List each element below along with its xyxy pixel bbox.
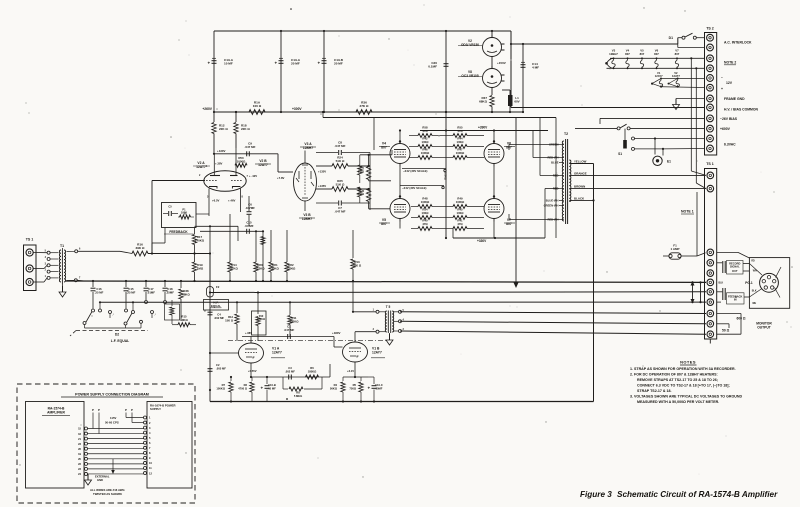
- svg-text:240KΩ: 240KΩ: [195, 239, 205, 243]
- transformer T2 primary winding: [562, 141, 564, 221]
- label 115V: [105, 416, 144, 425]
- svg-text:TWISTED AS SHOWN: TWISTED AS SHOWN: [93, 492, 122, 496]
- wire grid row upper: [195, 226, 239, 241]
- wire signal bus F: [400, 331, 706, 334]
- resistor R55: [446, 126, 484, 138]
- wire V1A plate row: [242, 331, 334, 343]
- label LF EQUAL: [111, 339, 129, 343]
- transistor V6 heater: [654, 49, 659, 70]
- label -24V lower: [400, 186, 444, 191]
- svg-text:T 5: T 5: [386, 305, 391, 309]
- wire V6 plate to green: [509, 145, 559, 151]
- svg-text:AMPLIFIER: AMPLIFIER: [47, 410, 65, 414]
- svg-text:11: 11: [149, 466, 152, 470]
- svg-text:47Ω: 47Ω: [457, 129, 463, 133]
- wire V2 cathode drops: [196, 189, 240, 217]
- wire feedback vertical with arrow: [514, 117, 519, 288]
- svg-text:5 MEG: 5 MEG: [294, 394, 302, 398]
- svg-text:FRAME GND: FRAME GND: [724, 97, 745, 101]
- svg-text:807: 807: [506, 222, 512, 226]
- svg-text:1 AMP: 1 AMP: [670, 247, 679, 251]
- wire 6.3vac vertical B: [695, 67, 706, 188]
- label V2 cathode voltages: [212, 199, 236, 203]
- fuse F1: [663, 192, 706, 259]
- resistor R41: [446, 219, 484, 231]
- svg-text:−: −: [721, 76, 723, 80]
- switch S1: [575, 124, 705, 156]
- svg-text:2. FOR DC OPERATION OF 807 &: 2. FOR DC OPERATION OF 807 & 12BH7 HEATE…: [630, 372, 718, 376]
- label 12V: [721, 76, 733, 91]
- svg-text:100 Ω: 100 Ω: [253, 104, 262, 108]
- tube V3 internals: [296, 165, 314, 198]
- wire V3A plate row: [316, 165, 332, 167]
- wire filter rail C13-B: [280, 30, 282, 113]
- svg-text:BLK: BLK: [752, 291, 757, 293]
- svg-text:390KΩ: 390KΩ: [290, 319, 300, 323]
- resistor R45: [446, 208, 484, 220]
- tube V6 807: [484, 140, 515, 166]
- svg-text:×: ×: [204, 309, 206, 313]
- svg-text:+ .42V: + .42V: [249, 174, 257, 178]
- node T2 BLACK: [569, 196, 594, 201]
- node T2 RED: [553, 187, 564, 191]
- label note line: [637, 389, 672, 393]
- svg-text:+: +: [208, 61, 211, 66]
- svg-text:P: P: [131, 408, 133, 412]
- svg-text:3: 3: [45, 262, 47, 265]
- label POWER SUPPLY CONNECTION DIAGRAM: [61, 393, 163, 398]
- resistor R2: [238, 377, 254, 402]
- svg-text:1000Ω: 1000Ω: [456, 200, 465, 204]
- potentiometer P1: [178, 208, 194, 220]
- box RA-1674-B power supply: [147, 402, 192, 489]
- svg-text:807: 807: [654, 52, 659, 56]
- terminal strip TS1 right: [705, 162, 717, 344]
- svg-text:56KΩ: 56KΩ: [330, 386, 338, 390]
- svg-text:RD: RD: [751, 261, 755, 263]
- svg-text:7: 7: [149, 446, 151, 450]
- svg-text:2: 2: [149, 421, 151, 425]
- svg-text:Schematic Circuit of RA-1574-B: Schematic Circuit of RA-1574-B Amplifier: [617, 490, 778, 499]
- wire V1B plate up: [355, 332, 376, 342]
- svg-text:27K Ω: 27K Ω: [359, 104, 369, 108]
- svg-text:100KΩ: 100KΩ: [257, 318, 265, 321]
- wire P pair A: [92, 408, 100, 434]
- svg-text:12BH7: 12BH7: [303, 146, 313, 150]
- tube V2 12AT7 envelope: [204, 171, 246, 192]
- svg-text:D1: D1: [669, 36, 673, 40]
- svg-text:47Ω: 47Ω: [422, 129, 428, 133]
- resistor R8: [283, 377, 322, 398]
- wire feedback drop: [152, 228, 165, 254]
- node T2 BROWN: [569, 185, 705, 189]
- resistor R48: [411, 197, 446, 209]
- svg-text:NOTE 2: NOTE 2: [724, 61, 736, 65]
- svg-text:PG-1: PG-1: [745, 281, 753, 285]
- capacitor C4: [204, 309, 224, 320]
- tube V5 807: [379, 195, 410, 226]
- wire column 210: [209, 225, 211, 281]
- svg-text:Figure 3: Figure 3: [580, 490, 612, 499]
- resistor R5: [349, 377, 363, 403]
- svg-text:68KΩ: 68KΩ: [182, 292, 190, 296]
- wire R6 up: [330, 364, 334, 377]
- svg-text:+: +: [368, 386, 371, 391]
- node T5 taps: [394, 309, 405, 333]
- label RECORD SIGNAL OUT: [717, 261, 749, 275]
- resistor R26 grid: [356, 188, 370, 202]
- svg-text:100Ω: 100Ω: [457, 140, 465, 144]
- svg-text:.04 MF: .04 MF: [245, 224, 254, 228]
- svg-text:10KΩ: 10KΩ: [180, 318, 188, 322]
- label figure caption: [580, 490, 778, 499]
- resistor R54: [411, 208, 446, 220]
- svg-text:BLUE: BLUE: [551, 161, 559, 165]
- svg-text:.047 MF: .047 MF: [244, 145, 255, 149]
- label FEEDBACK IN: [717, 288, 749, 304]
- svg-text:20: 20: [78, 457, 81, 461]
- resistor R24: [332, 156, 369, 169]
- label 6.3VAC: [724, 143, 736, 147]
- node T2 BLUE-WH: [546, 199, 564, 203]
- label +.42V: [249, 174, 257, 178]
- wire screen to red2: [540, 118, 559, 176]
- label -0.55V: [248, 369, 257, 373]
- svg-text:12AT7: 12AT7: [258, 163, 268, 167]
- svg-text:750Ω: 750Ω: [349, 386, 356, 390]
- svg-text:POWER SUPPLY CONNECTION DIA: POWER SUPPLY CONNECTION DIAGRAM: [75, 393, 149, 397]
- svg-text:4700 Ω: 4700 Ω: [238, 386, 248, 390]
- svg-text:15K Ω: 15K Ω: [225, 318, 234, 322]
- tube V4 807: [379, 140, 410, 166]
- node amplifier pins: [78, 427, 87, 476]
- inductor L1: [502, 90, 520, 113]
- capacitor C16: [91, 280, 104, 309]
- wire signal bus D: [400, 312, 706, 314]
- node T2 GREEN-WH: [544, 204, 564, 208]
- label note line: [637, 400, 719, 404]
- transformer T2 core: [566, 139, 568, 224]
- capacitor C15 label: [245, 221, 254, 229]
- wire V2-V8 link: [492, 57, 506, 69]
- svg-text:T1: T1: [60, 244, 64, 248]
- resistor R17: [192, 228, 204, 263]
- svg-text:⁄: ⁄: [154, 314, 156, 317]
- transistor V7 heater: [675, 49, 680, 70]
- node T2 ORANGE: [569, 171, 705, 175]
- svg-text:BROWN: BROWN: [574, 185, 585, 189]
- svg-text:10 MF: 10 MF: [268, 386, 276, 390]
- wire C20 rail: [445, 30, 447, 113]
- tube V1A envelope: [239, 343, 264, 363]
- ground T1: [59, 284, 66, 297]
- wire splitter right rail: [369, 153, 371, 211]
- resistor R21: [269, 230, 280, 282]
- svg-text:807: 807: [381, 222, 387, 226]
- svg-text:STRAP TS2-17 & 18.: STRAP TS2-17 & 18.: [637, 389, 672, 393]
- svg-text:.25 MF: .25 MF: [127, 290, 136, 294]
- svg-text:+2.1V: +2.1V: [347, 369, 354, 373]
- resistor R22b: [285, 230, 296, 282]
- ground external: [85, 459, 115, 485]
- switch D1: [669, 33, 705, 40]
- svg-text:+: +: [318, 61, 321, 66]
- wire V1V2 heater row: [651, 78, 705, 87]
- label +180V: [332, 331, 341, 335]
- resistor R11: [288, 301, 299, 336]
- svg-text:−24V (30V SCALE): −24V (30V SCALE): [402, 186, 427, 190]
- resistor R46: [409, 148, 446, 160]
- svg-text:RED: RED: [553, 187, 559, 191]
- label +300V: [292, 107, 302, 111]
- wire V2 top to D1 feed: [510, 31, 678, 108]
- svg-text:4 MF: 4 MF: [532, 66, 539, 70]
- resistor R19: [192, 262, 204, 282]
- resistor R15: [172, 315, 196, 327]
- resistor R6: [306, 366, 319, 379]
- svg-text:1. STRAP AS SHOWN FOR OPERATI: 1. STRAP AS SHOWN FOR OPERATION WITH 3A …: [630, 367, 736, 371]
- resistor R25: [332, 179, 369, 191]
- svg-text:1: 1: [206, 165, 208, 168]
- svg-text:REMOVE STRAPS AT TS2-17 TO 25: REMOVE STRAPS AT TS2-17 TO 25 & 18 TO 26…: [637, 378, 718, 382]
- svg-text:P: P: [125, 408, 127, 412]
- svg-text:10: 10: [149, 461, 152, 465]
- svg-text:TS 1: TS 1: [706, 162, 714, 166]
- svg-text:+0.55V: +0.55V: [248, 369, 257, 373]
- wire V1B cathode: [343, 362, 368, 378]
- box FEEDBACK: [162, 203, 197, 235]
- label note line: [637, 378, 718, 382]
- svg-text:12BH7: 12BH7: [302, 217, 312, 221]
- label wire colors: [719, 261, 757, 306]
- wire signal bus C: [100, 301, 706, 303]
- svg-text:+330V: +330V: [477, 239, 487, 243]
- wire S1 row2: [632, 137, 705, 140]
- svg-text:P: P: [98, 408, 100, 412]
- svg-text:4: 4: [149, 431, 151, 435]
- wire interconnect lines: [88, 429, 144, 474]
- transformer T5 label: [386, 305, 391, 309]
- svg-text:T2: T2: [564, 132, 568, 136]
- svg-text:−24V (30V SCALE): −24V (30V SCALE): [403, 169, 428, 173]
- svg-text:SUPPLY: SUPPLY: [150, 407, 161, 411]
- svg-text:.25MF: .25MF: [166, 290, 174, 294]
- svg-text:4: 4: [45, 256, 47, 259]
- label +.38V: [199, 162, 249, 199]
- svg-text:2: 2: [373, 328, 375, 331]
- svg-text:+300V: +300V: [292, 107, 302, 111]
- svg-text:6: 6: [149, 441, 151, 445]
- box RA-1574-B amplifier: [26, 402, 85, 489]
- svg-text:CONNECT 6.3 VDC TO TS2-17 & 18: CONNECT 6.3 VDC TO TS2-17 & 18 [+TO 17, …: [637, 384, 730, 388]
- label V3B: [299, 201, 315, 221]
- label FRAME GND: [724, 97, 745, 101]
- svg-text:+6.5V: +6.5V: [212, 199, 220, 203]
- box dashed power supply diagram: [17, 384, 195, 503]
- svg-text:WH: WH: [753, 271, 757, 273]
- transformer T5 core: [388, 311, 390, 334]
- svg-text:L.F. EQUAL: L.F. EQUAL: [111, 339, 129, 343]
- svg-text:1000Ω: 1000Ω: [237, 159, 246, 163]
- wire 600ohm bracket: [717, 314, 746, 335]
- svg-text:510KΩ: 510KΩ: [255, 267, 265, 271]
- label A.C. INTERLOCK: [724, 41, 752, 45]
- capacitor C10-B: [261, 376, 277, 402]
- svg-text:OUTPUT: OUTPUT: [757, 325, 771, 329]
- svg-text:P: P: [92, 408, 94, 412]
- resistor R13: [351, 230, 376, 313]
- resistor R40: [411, 219, 446, 231]
- svg-text:30KΩ: 30KΩ: [271, 267, 279, 271]
- capacitor C5 in feedback: [163, 205, 178, 217]
- svg-text:NOTES: NOTES: [680, 360, 696, 365]
- label -24V upper: [402, 169, 446, 174]
- wire feedback bracket: [717, 301, 721, 303]
- svg-text:7: 7: [79, 277, 81, 280]
- svg-text:51K Ω: 51K Ω: [336, 183, 345, 187]
- svg-text:.005 MF: .005 MF: [216, 366, 226, 370]
- wire quad center vertical: [444, 112, 448, 238]
- capacitor C20: [428, 61, 448, 69]
- wire S1 row3: [632, 147, 705, 150]
- transistor V4 heater: [625, 49, 630, 70]
- svg-text:1000Ω: 1000Ω: [456, 151, 465, 155]
- label note line: [630, 372, 718, 376]
- svg-text:−26V BIAS: −26V BIAS: [720, 117, 738, 121]
- node T2 RED-WH: [547, 218, 563, 222]
- svg-text:YELLOW: YELLOW: [574, 160, 587, 164]
- wire filter rail C13-C: [323, 30, 325, 113]
- svg-text:+130V: +130V: [217, 149, 226, 153]
- svg-text:6.3VAC: 6.3VAC: [724, 143, 736, 147]
- resistor R4: [330, 377, 345, 403]
- label V1B: [371, 347, 385, 358]
- capacitor C13d: [124, 280, 136, 309]
- svg-text:+135V: +135V: [318, 170, 326, 174]
- wire C14 rail: [522, 44, 524, 113]
- label all wires: [90, 488, 125, 496]
- transformer T2 secondary winding: [569, 160, 571, 202]
- svg-text:600 Ω: 600 Ω: [737, 316, 746, 320]
- svg-text:EQUAL: EQUAL: [211, 304, 221, 308]
- svg-text:D2: D2: [115, 333, 119, 337]
- svg-text:E1: E1: [667, 160, 671, 164]
- wire V6 plate feed: [493, 129, 495, 141]
- wire top B+ bus: [214, 30, 511, 32]
- wire grid row lower: [200, 230, 263, 232]
- switch D2 levers: [83, 312, 156, 326]
- svg-text:39K Ω: 39K Ω: [135, 246, 145, 250]
- node T2 RED-WH: [547, 156, 563, 160]
- node T2 GREEN: [549, 143, 564, 147]
- capacitor C9: [244, 142, 255, 157]
- wire heater left end: [605, 58, 613, 68]
- tube V7 807: [484, 195, 515, 226]
- terminal strip TS1 left: [24, 238, 37, 291]
- wire coupling row: [213, 153, 278, 155]
- svg-text:68KΩ: 68KΩ: [479, 100, 488, 104]
- connector PG-1 box: [749, 258, 789, 309]
- svg-text:.002 MF: .002 MF: [285, 369, 295, 373]
- label +600V: [720, 127, 731, 131]
- label NOTES title: [680, 360, 697, 366]
- svg-text:39K Ω: 39K Ω: [353, 264, 362, 268]
- wire 6.3vac vertical A: [690, 57, 706, 175]
- resistor R51: [358, 187, 362, 203]
- wire signal bus E: [400, 321, 706, 324]
- transformer T1 label: [60, 244, 64, 248]
- svg-text:12AY7: 12AY7: [655, 74, 663, 78]
- svg-text:8: 8: [149, 451, 151, 455]
- tube V1B envelope: [343, 342, 368, 362]
- svg-text:21: 21: [78, 437, 81, 441]
- label MONITOR OUTPUT: [756, 322, 772, 330]
- svg-text:6: 6: [79, 248, 81, 251]
- capacitor C8: [316, 141, 370, 156]
- svg-text:FEEDBACK: FEEDBACK: [169, 230, 188, 234]
- label note line: [630, 395, 742, 399]
- transformer T5 windings: [385, 311, 393, 332]
- svg-text:5: 5: [45, 250, 47, 253]
- svg-text:100KΩ: 100KΩ: [216, 386, 225, 390]
- svg-text:1: 1: [45, 275, 47, 278]
- resistor R14: [228, 214, 239, 282]
- svg-text:50 Ω: 50 Ω: [722, 328, 730, 332]
- label +260V: [202, 107, 212, 111]
- node T1 secondary bottom: [67, 277, 86, 282]
- svg-text:.047 MF: .047 MF: [284, 328, 295, 332]
- wire HV bias common run: [511, 107, 705, 109]
- resistor R7: [216, 376, 233, 403]
- svg-text:GREEN-WH: GREEN-WH: [544, 204, 559, 208]
- label D2: [115, 333, 119, 337]
- wire screen to red: [533, 131, 559, 158]
- svg-text:22K Ω: 22K Ω: [241, 127, 250, 131]
- wire shield dash: [228, 339, 386, 341]
- label T2: [564, 132, 568, 136]
- svg-text:12AY7: 12AY7: [272, 350, 282, 354]
- svg-text:BLK: BLK: [719, 282, 724, 284]
- wire V5 cathode bus: [399, 222, 401, 229]
- svg-text:5: 5: [149, 436, 151, 440]
- tube V2 internal electrodes: [206, 148, 243, 189]
- svg-text:1: 1: [373, 308, 375, 311]
- wire V7 cathode bus: [493, 222, 495, 239]
- resistor R58: [409, 126, 446, 138]
- label V3A: [300, 142, 316, 163]
- svg-text:.01MF: .01MF: [147, 290, 155, 294]
- resistor R12b: [225, 301, 239, 341]
- node T2 YELLOW: [569, 160, 593, 164]
- svg-text:.047 MF: .047 MF: [334, 144, 345, 148]
- wire T2 secondary vertical: [593, 164, 595, 402]
- wire main signal bus A: [66, 281, 706, 282]
- wire heater bus top: [610, 57, 705, 59]
- svg-text:SIGNAL: SIGNAL: [730, 265, 740, 269]
- capacitor C3: [285, 366, 295, 380]
- resistor R20: [254, 230, 265, 282]
- resistor R38: [179, 280, 191, 321]
- svg-text:+260V: +260V: [202, 107, 212, 111]
- svg-text:.047MF: .047MF: [245, 206, 255, 210]
- wire V5 grid wire: [369, 202, 390, 209]
- svg-text:ORANGE: ORANGE: [574, 171, 587, 175]
- resistor R37: [479, 88, 494, 114]
- svg-text:OUT: OUT: [732, 269, 738, 273]
- svg-text:12AT7: 12AT7: [672, 74, 680, 78]
- capacitor C13-A: [208, 58, 234, 66]
- svg-text:807: 807: [381, 146, 387, 150]
